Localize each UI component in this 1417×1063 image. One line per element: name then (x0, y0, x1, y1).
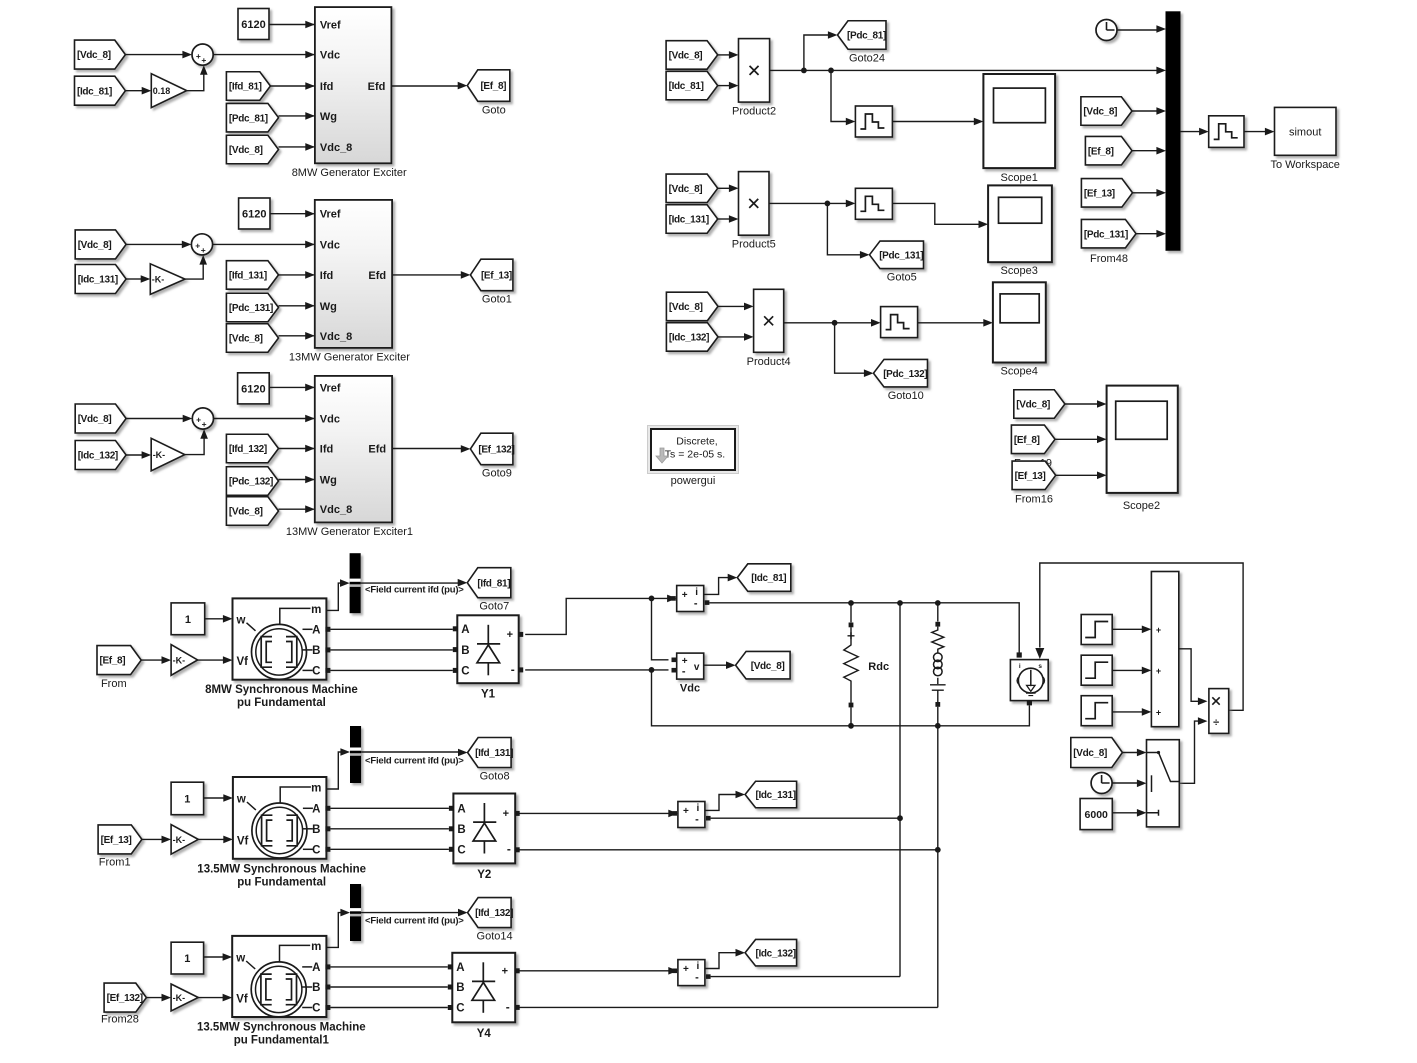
svg-text:[Vdc_8]: [Vdc_8] (669, 302, 703, 313)
svg-text:Vref: Vref (320, 20, 341, 32)
Goto tag [Vdc_8] (measured voltage) (736, 651, 791, 679)
Goto tag [Pdc_81] (Goto24) (838, 21, 887, 50)
svg-text:[Vdc_8]: [Vdc_8] (78, 240, 112, 251)
svg-text:÷: ÷ (1213, 717, 1219, 729)
constant 6120 (group 2) (239, 198, 270, 229)
svg-text:[Ifd_132]: [Ifd_132] (229, 444, 267, 455)
svg-text:[Vdc_8]: [Vdc_8] (669, 184, 703, 195)
Goto tag [Ifd_81] (Goto7) (467, 568, 511, 598)
svg-text:B: B (312, 982, 320, 994)
svg-text:[Pdc_131]: [Pdc_131] (1084, 229, 1128, 240)
svg-text:+: + (202, 419, 207, 429)
svg-text:A: A (312, 804, 320, 816)
wire clock to mux (1117, 29, 1158, 31)
svg-text:Ifd: Ifd (320, 270, 333, 282)
From tag [Ef_8] (Scope2 input 2) (1011, 425, 1055, 454)
wire Y1 + to current measurement (525, 598, 667, 634)
wire [Vdc_8] to port (279, 508, 314, 510)
svg-text:+: + (195, 241, 200, 251)
wire phase (330, 848, 449, 850)
From tag [Idc_81] (group 1) (75, 76, 126, 105)
svg-text:[Idc_132]: [Idc_132] (755, 948, 795, 959)
svg-text:C: C (456, 1003, 464, 1015)
rectifier Y4 (452, 953, 515, 1023)
svg-text:[Pdc_131]: [Pdc_131] (879, 250, 923, 261)
wire [Idc_81] to Product2 (718, 85, 731, 87)
junction Product2-Goto24 (801, 68, 807, 74)
svg-text:8MW Generator Exciter: 8MW Generator Exciter (292, 167, 407, 179)
svg-text:[Ef_13]: [Ef_13] (481, 271, 512, 282)
wire Step1 to sum (1112, 628, 1143, 630)
wire Product2 output rail to Mux (770, 69, 1158, 71)
svg-text:C: C (312, 666, 320, 678)
From tag [Ifd_131] (group 2) (226, 261, 278, 290)
svg-text:simout: simout (1289, 126, 1321, 138)
To Workspace block simout (1275, 107, 1337, 155)
wire to Goto10 (835, 323, 866, 373)
wire Efd to Goto1 (392, 274, 462, 276)
svg-text:-: - (694, 598, 698, 610)
wire [Vdc_8] to sum (126, 243, 183, 245)
svg-text:[Vdc_8]: [Vdc_8] (77, 50, 111, 61)
svg-text:-K-: -K- (173, 993, 186, 1003)
svg-text:i: i (697, 961, 700, 972)
wire control signal to CS s port (1040, 563, 1243, 710)
svg-text:Vdc_8: Vdc_8 (320, 142, 352, 154)
svg-text:Goto: Goto (482, 104, 506, 116)
rate transition 2 (855, 188, 892, 219)
wire phase (330, 986, 447, 988)
port i1 in (671, 596, 676, 601)
bus selector (350, 884, 361, 941)
From tag [Vdc_8] (group 3) (75, 404, 126, 433)
From tag [Idc_132] (group 3) (75, 441, 126, 470)
svg-text:B: B (461, 645, 469, 657)
svg-text:i: i (695, 587, 698, 598)
wire sum to Vdc (213, 54, 314, 56)
svg-text:[Idc_131]: [Idc_131] (755, 790, 795, 801)
svg-text:Wg: Wg (320, 475, 337, 487)
svg-text:[Ef_132]: [Ef_132] (107, 993, 143, 1004)
sum junction (group 2) (191, 234, 212, 255)
svg-text:Scope3: Scope3 (1001, 265, 1038, 277)
scope Scope3 (988, 185, 1052, 262)
wire m to bus selector (326, 583, 342, 610)
wire [Vdc_8] to Product5 (718, 187, 731, 189)
svg-text:[Ifd_132]: [Ifd_132] (475, 908, 513, 919)
svg-text:C: C (461, 666, 469, 678)
wire Idc tag to gain (126, 454, 142, 456)
svg-text:+: + (201, 245, 206, 255)
From tag [Vdc_8] (Product5 in1) (666, 174, 718, 203)
svg-text:[Pdc_131]: [Pdc_131] (229, 303, 273, 314)
wire sum to Vdc (213, 243, 314, 245)
svg-text:Discrete,: Discrete, (676, 436, 717, 448)
svg-text:[Ef_13]: [Ef_13] (1084, 188, 1115, 199)
From tag [Pdc_131] (mux input) (1081, 219, 1136, 248)
subsystem 13.5MW Synchronous Machine pu Fundamental (233, 777, 327, 859)
svg-text:Vref: Vref (320, 382, 341, 394)
rectifier Y1 (457, 615, 518, 683)
svg-text:Vref: Vref (320, 209, 341, 221)
subsystem 13MW Generator Exciter1 (315, 376, 392, 523)
svg-text:-K-: -K- (173, 835, 186, 845)
svg-text:Vdc_8: Vdc_8 (320, 504, 352, 516)
wire DC+ to Vdc measurement + (652, 598, 669, 659)
wire Ef tag to gain (146, 997, 163, 999)
svg-text:A: A (457, 804, 465, 816)
svg-text:[Pdc_81]: [Pdc_81] (229, 113, 268, 124)
svg-text:Product4: Product4 (747, 356, 791, 368)
scope Scope4 (993, 282, 1046, 362)
gain -K- (group 3) (151, 438, 185, 471)
svg-text:Ifd: Ifd (320, 81, 333, 93)
wire [Idc_131] to Product5 (718, 218, 731, 220)
svg-text:Vdc_8: Vdc_8 (320, 331, 352, 343)
svg-text:Vf: Vf (236, 994, 248, 1006)
wire [Ifd_132] to port (279, 448, 314, 450)
wire phase (330, 807, 449, 809)
wire [Ef_13] to Scope2 (1056, 474, 1099, 476)
wire m to bus selector (326, 752, 343, 789)
step block Step1 (1081, 615, 1112, 645)
wire [Pdc_81] to port (279, 115, 314, 117)
gain -K- (machine 3) (171, 984, 198, 1011)
wire bus selector to Goto8 (361, 751, 460, 753)
rate transition 3 (881, 307, 918, 338)
Goto tag [Ifd_131] (Goto8) (468, 738, 512, 768)
svg-text:[Ef_8]: [Ef_8] (1014, 435, 1040, 446)
product Product4 (754, 289, 784, 352)
wire gain to Vf (198, 838, 225, 840)
wire [Vdc_8] to port (279, 335, 314, 337)
wire 1 to w (205, 618, 225, 620)
svg-text:i: i (1019, 663, 1021, 670)
junction rail nodeA (897, 600, 903, 606)
svg-text:+: + (502, 966, 508, 978)
svg-text:[Pdc_132]: [Pdc_132] (229, 477, 273, 488)
gain 0.18 (group 1) (151, 74, 186, 108)
svg-text:To Workspace: To Workspace (1270, 159, 1340, 171)
step block Step3 (1081, 696, 1112, 726)
wire Idc tag to gain (126, 278, 141, 280)
wire gain to Vf (198, 659, 225, 661)
scope Scope1 (983, 74, 1055, 168)
svg-text:[Ef_8]: [Ef_8] (480, 81, 506, 92)
From tag [Vdc_8] (Product2 in1) (666, 41, 718, 70)
svg-text:A: A (456, 962, 464, 974)
svg-text:[Vdc_8]: [Vdc_8] (78, 414, 112, 425)
svg-text:m: m (311, 941, 321, 953)
wire Efd to Goto (391, 85, 459, 87)
wire m to bus selector (326, 913, 343, 948)
From tag [Vdc_8] (group 1) (226, 135, 278, 164)
wire top DC rail (709, 603, 1019, 653)
wire 6120 to Vref (269, 24, 314, 26)
constant 6120 (group 1) (238, 9, 269, 40)
svg-text:[Idc_132]: [Idc_132] (78, 451, 118, 462)
wire 1 to w (204, 956, 225, 958)
svg-text:Goto24: Goto24 (849, 52, 885, 64)
wire [Ifd_81] to port (270, 85, 314, 87)
svg-text:6120: 6120 (241, 383, 265, 395)
From tag [Pdc_132] (group 3) (226, 467, 278, 496)
junction node DC+ (649, 596, 655, 602)
wire [Ef_13] to mux (1133, 192, 1158, 194)
step block Step2 (1081, 655, 1112, 685)
svg-text:[Vdc_8]: [Vdc_8] (1083, 107, 1117, 118)
junction bottom rail RLC (935, 723, 941, 729)
wire to Goto5 (827, 203, 861, 254)
svg-text:s: s (1038, 663, 1042, 670)
sum block (vertical) (1151, 572, 1178, 727)
wire i2 signal to Idc_131 tag (705, 795, 738, 811)
svg-text:+: + (1156, 666, 1161, 676)
svg-text:6120: 6120 (241, 19, 265, 31)
junction Product5-Goto5 (825, 201, 831, 207)
From tag [Vdc_8] (mux input) (1081, 97, 1132, 126)
wire Y4 + to i3 (520, 970, 670, 972)
switch block Switch (1147, 740, 1180, 827)
wire sum to Vdc (214, 418, 314, 420)
wire [Pdc_132] to port (279, 479, 314, 481)
svg-text:+: + (682, 590, 688, 601)
wire 1 to w (204, 797, 225, 799)
svg-text:C: C (457, 845, 465, 857)
Goto tag [Idc_131] (745, 781, 797, 808)
svg-text:[Vdc_8]: [Vdc_8] (229, 145, 263, 156)
wire to rate transition 1 (831, 70, 847, 121)
wire phase (330, 628, 452, 630)
svg-text:-K-: -K- (173, 655, 186, 665)
wire [Ifd_131] to port (279, 274, 314, 276)
wire gain to sum (187, 73, 204, 90)
svg-text:Vdc: Vdc (320, 239, 340, 251)
svg-text:Efd: Efd (368, 444, 386, 456)
wire phase (330, 669, 452, 671)
svg-text:Product2: Product2 (732, 106, 776, 118)
constant 6120 (group 3) (238, 373, 270, 404)
wire [Vdc_8] to Scope2 (1065, 403, 1099, 405)
svg-text:Ts = 2e-05 s.: Ts = 2e-05 s. (665, 449, 725, 461)
wire Idc tag to gain (125, 90, 142, 92)
wire Product5 output (769, 202, 847, 204)
Goto tag [Ef_13] (Goto1) (470, 259, 513, 291)
svg-text:1: 1 (184, 953, 190, 965)
svg-text:-: - (506, 1000, 510, 1014)
From tag [Ef_8] (mux input) (1085, 136, 1132, 165)
wire switch to product divide (1179, 721, 1199, 783)
wire node A vertical (899, 603, 901, 977)
From tag [Vdc_8] (group 3) (226, 497, 278, 526)
svg-text:B: B (312, 645, 320, 657)
svg-text:Vf: Vf (237, 835, 249, 847)
voltage measurement Vdc (+ - v) (677, 653, 704, 679)
svg-text:[Ef_8]: [Ef_8] (100, 656, 126, 667)
wire [Vdc_8] to mux (1132, 110, 1158, 112)
junction rail RLC (935, 600, 941, 606)
svg-text:[Pdc_132]: [Pdc_132] (883, 369, 927, 380)
svg-text:From16: From16 (1015, 494, 1053, 506)
series RLC branch (937, 603, 939, 622)
wire 6000 to switch (1112, 812, 1138, 814)
wire i3 - to node A vertical (711, 976, 900, 978)
Goto tag [Pdc_132] (Goto10) (874, 359, 928, 387)
svg-text:[Idc_81]: [Idc_81] (751, 573, 786, 584)
svg-text:Goto1: Goto1 (482, 294, 512, 306)
sum junction (group 3) (192, 408, 213, 429)
svg-text:13MW Generator Exciter1: 13MW Generator Exciter1 (286, 526, 413, 538)
wire [Vdc_8] to port (279, 146, 314, 148)
svg-text:[Vdc_8]: [Vdc_8] (229, 507, 263, 518)
svg-text:-: - (695, 972, 699, 984)
svg-text:Wg: Wg (320, 301, 337, 313)
svg-text:-: - (511, 662, 515, 676)
svg-text:[Ifd_131]: [Ifd_131] (475, 748, 513, 759)
svg-text:pu Fundamental1: pu Fundamental1 (234, 1035, 330, 1047)
svg-text:Efd: Efd (368, 81, 386, 93)
svg-text:[Ef_8]: [Ef_8] (1088, 146, 1114, 157)
junction Product4-Goto10 (832, 320, 838, 326)
svg-text:+: + (507, 629, 513, 641)
wire phase (330, 1007, 447, 1009)
svg-text:Vdc: Vdc (320, 50, 340, 62)
wire gain to sum (185, 437, 204, 455)
svg-text:B: B (456, 982, 464, 994)
wire rate transition 1 to Scope1 (892, 121, 975, 123)
subsystem 13MW Generator Exciter (315, 200, 392, 348)
From tag [Vdc_8] (Product4 in1) (666, 292, 718, 321)
From tag [Ef_13] (Scope2 input 3) (1012, 461, 1056, 490)
wire Ef tag to gain (142, 838, 163, 840)
svg-text:Goto9: Goto9 (482, 468, 512, 480)
wire phase (330, 966, 447, 968)
svg-text:-K-: -K- (152, 275, 165, 285)
svg-text:Scope2: Scope2 (1123, 500, 1160, 512)
wire rate transition 2 to Scope3 (893, 203, 980, 224)
svg-text:[Idc_81]: [Idc_81] (77, 86, 112, 97)
wire [Idc_132] to Product4 (718, 336, 746, 338)
gain -K- (machine 2) (171, 825, 198, 855)
wire bottom DC rail (652, 670, 1030, 726)
svg-text:C: C (312, 845, 320, 857)
wire to Goto24 (804, 35, 830, 70)
svg-text:[Vdc_8]: [Vdc_8] (1016, 400, 1050, 411)
From tag [Vdc_8] (group 2) (75, 230, 126, 259)
svg-text:6000: 6000 (1085, 809, 1109, 821)
From tag [Pdc_81] (group 1) (226, 103, 278, 132)
svg-text:Product5: Product5 (732, 239, 776, 251)
port v in+ (672, 658, 677, 663)
product-divide block (1209, 689, 1229, 734)
svg-text:[Vdc_8]: [Vdc_8] (229, 334, 263, 345)
Goto tag [Ifd_132] (Goto14) (468, 898, 512, 928)
svg-text:Goto14: Goto14 (477, 931, 513, 943)
junction node B / Y2 - (935, 847, 941, 853)
port v in- (672, 668, 677, 673)
svg-text:Wg: Wg (320, 111, 337, 123)
bus selector (350, 726, 361, 783)
From tag [Ifd_81] (group 1) (226, 72, 270, 101)
wire [Ef_8] to Scope2 (1055, 438, 1099, 440)
svg-text:+: + (503, 808, 509, 820)
wire bus selector to Goto7 (361, 582, 460, 584)
svg-text:13.5MW Synchronous Machine: 13.5MW Synchronous Machine (197, 863, 366, 875)
controlled current source (1010, 660, 1048, 701)
svg-text:[Ef_13]: [Ef_13] (101, 835, 132, 846)
clock Clock1 (1091, 773, 1112, 794)
svg-text:Efd: Efd (368, 270, 386, 282)
svg-text:Rdc: Rdc (868, 661, 889, 673)
clock Clock (1096, 20, 1117, 41)
subsystem 8MW Synchronous Machine pu Fundamental (233, 598, 327, 679)
wire i1 signal to Idc_81 tag (703, 578, 729, 595)
port CS i (1017, 652, 1022, 657)
svg-text:[Idc_131]: [Idc_131] (669, 215, 709, 226)
wire i3 signal to Idc_132 tag (705, 953, 738, 969)
constant 1 (machine 3) (171, 942, 204, 974)
svg-text:w: w (235, 953, 245, 965)
svg-text:Y2: Y2 (477, 869, 491, 881)
svg-text:-: - (682, 666, 686, 678)
wire mux to rate transition 4 (1180, 131, 1200, 133)
bus selector (350, 553, 361, 613)
gain -K- (machine 1) (171, 645, 198, 676)
resistor Rdc (850, 603, 852, 622)
wire Ef tag to gain (141, 659, 163, 661)
constant 6000 (1080, 799, 1112, 830)
sum junction (group 1) (192, 44, 213, 65)
subsystem 13.5MW Synchronous Machine pu Fundamental1 (232, 936, 326, 1017)
svg-text:+: + (1156, 708, 1161, 718)
wire 6120 to Vref (269, 386, 314, 388)
svg-text:6120: 6120 (242, 209, 266, 221)
svg-text:1: 1 (185, 614, 191, 626)
wire [Vdc_8] to Product4 (718, 305, 746, 307)
junction node A / i2 (897, 815, 903, 821)
wire Product4 output (784, 322, 873, 324)
wire gain to Vf (198, 997, 224, 999)
subsystem 8MW Generator Exciter (315, 7, 392, 163)
svg-text:Scope4: Scope4 (1001, 366, 1038, 378)
mux Mux (1166, 12, 1180, 251)
wire Efd to Goto9 (392, 448, 462, 450)
wire Y2 + to i2 (520, 812, 670, 814)
svg-text:B: B (312, 824, 320, 836)
svg-text:Goto5: Goto5 (887, 272, 917, 284)
Goto tag [Idc_132] (745, 939, 797, 966)
From tag [Vdc_8] (group 2) (226, 324, 278, 353)
svg-text:Vdc: Vdc (680, 683, 700, 695)
From tag [Idc_131] (Product5 in2) (666, 205, 718, 234)
wire i2 - to node A (711, 817, 900, 819)
constant 1 (machine 2) (171, 782, 204, 815)
svg-text:[Pdc_81]: [Pdc_81] (847, 31, 886, 42)
svg-text:-: - (695, 814, 699, 826)
svg-text:i: i (697, 803, 700, 814)
Goto tag [Pdc_131] (Goto5) (870, 241, 924, 268)
svg-text:+: + (196, 415, 201, 425)
svg-text:Ifd: Ifd (320, 444, 333, 456)
From tag [Idc_131] (group 2) (75, 265, 126, 294)
wire [Pdc_131] to port (279, 305, 314, 307)
rate transition 4 (1209, 116, 1244, 148)
wire v output to Vdc_8 tag (704, 664, 728, 666)
port CS out (1027, 700, 1032, 705)
svg-text:+: + (196, 51, 201, 61)
svg-text:[Ef_132]: [Ef_132] (478, 445, 514, 456)
current measurement i3 (678, 960, 705, 986)
